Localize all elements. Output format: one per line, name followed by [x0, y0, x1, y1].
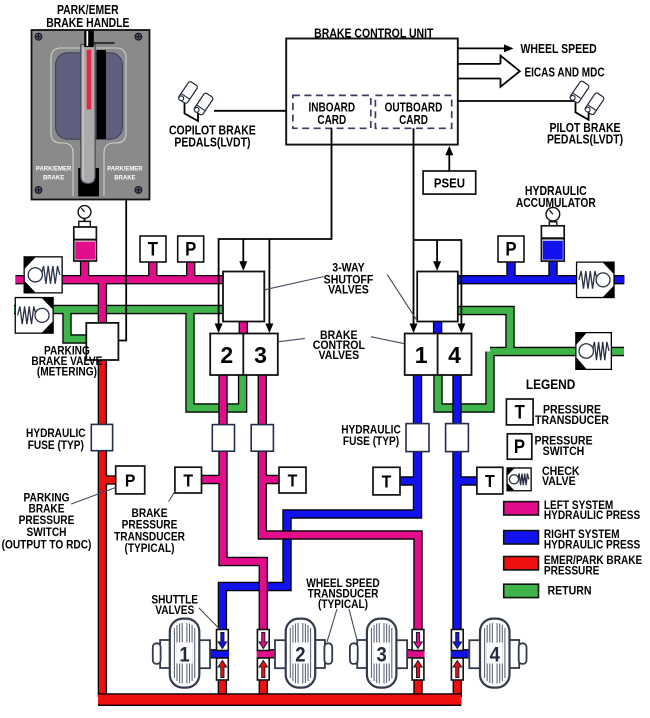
svg-text:BRAKE: BRAKE — [43, 174, 65, 181]
svg-text:T: T — [382, 472, 392, 492]
svg-text:FUSE (TYP): FUSE (TYP) — [28, 439, 85, 452]
svg-text:(METERING): (METERING) — [37, 366, 97, 379]
svg-text:SWITCH: SWITCH — [27, 526, 67, 539]
svg-text:EICAS AND MDC: EICAS AND MDC — [525, 67, 605, 80]
svg-text:ACCUMULATOR: ACCUMULATOR — [516, 197, 597, 210]
svg-text:FUSE (TYP): FUSE (TYP) — [343, 435, 400, 448]
svg-text:WHEEL SPEED: WHEEL SPEED — [521, 43, 597, 56]
svg-text:(TYPICAL): (TYPICAL) — [318, 598, 368, 611]
svg-text:HYDRAULIC PRESS: HYDRAULIC PRESS — [544, 509, 640, 522]
svg-text:P: P — [125, 471, 136, 491]
svg-text:PARK/EMER: PARK/EMER — [36, 165, 72, 172]
svg-text:VALVES: VALVES — [318, 349, 359, 362]
svg-text:VALVES: VALVES — [328, 284, 369, 297]
svg-text:PEDALS(LVDT): PEDALS(LVDT) — [174, 137, 250, 150]
svg-text:P: P — [185, 239, 196, 260]
svg-text:T: T — [288, 471, 298, 491]
svg-text:1: 1 — [415, 342, 428, 368]
svg-text:PARK/EMER: PARK/EMER — [107, 165, 143, 172]
svg-text:VALVE: VALVE — [542, 476, 576, 489]
svg-text:PEDALS(LVDT): PEDALS(LVDT) — [547, 134, 623, 147]
svg-text:T: T — [485, 471, 495, 491]
svg-text:HYDRAULIC PRESS: HYDRAULIC PRESS — [544, 539, 640, 552]
svg-text:RETURN: RETURN — [548, 585, 592, 598]
svg-text:OUTBOARD: OUTBOARD — [385, 102, 443, 115]
svg-text:1: 1 — [179, 643, 189, 666]
svg-text:CARD: CARD — [317, 114, 346, 127]
svg-text:TRANSDUCER: TRANSDUCER — [535, 414, 609, 427]
svg-text:2: 2 — [220, 342, 233, 368]
svg-text:P: P — [514, 436, 525, 457]
svg-text:INBOARD: INBOARD — [309, 102, 356, 115]
svg-text:COPILOT BRAKE: COPILOT BRAKE — [169, 125, 256, 138]
svg-text:BRAKE HANDLE: BRAKE HANDLE — [46, 16, 129, 30]
svg-text:2: 2 — [295, 643, 305, 666]
svg-text:P: P — [505, 239, 516, 260]
svg-text:CARD: CARD — [399, 114, 428, 127]
svg-text:SWITCH: SWITCH — [543, 446, 585, 459]
svg-text:4: 4 — [448, 342, 461, 368]
svg-text:4: 4 — [490, 643, 500, 666]
svg-text:3: 3 — [254, 342, 267, 368]
svg-text:T: T — [148, 239, 158, 260]
svg-text:PRESSURE: PRESSURE — [19, 514, 75, 527]
svg-text:T: T — [515, 402, 525, 423]
svg-text:3: 3 — [377, 643, 387, 666]
svg-text:BRAKE CONTROL UNIT: BRAKE CONTROL UNIT — [314, 28, 433, 41]
svg-text:PRESSURE: PRESSURE — [544, 565, 599, 578]
svg-text:T: T — [183, 471, 193, 491]
svg-text:(TYPICAL): (TYPICAL) — [124, 542, 174, 555]
svg-text:PSEU: PSEU — [434, 176, 465, 191]
svg-text:LEGEND: LEGEND — [526, 376, 575, 392]
svg-text:(OUTPUT TO RDC): (OUTPUT TO RDC) — [2, 539, 92, 552]
svg-text:VALVES: VALVES — [155, 604, 194, 617]
svg-text:BRAKE: BRAKE — [114, 174, 136, 181]
